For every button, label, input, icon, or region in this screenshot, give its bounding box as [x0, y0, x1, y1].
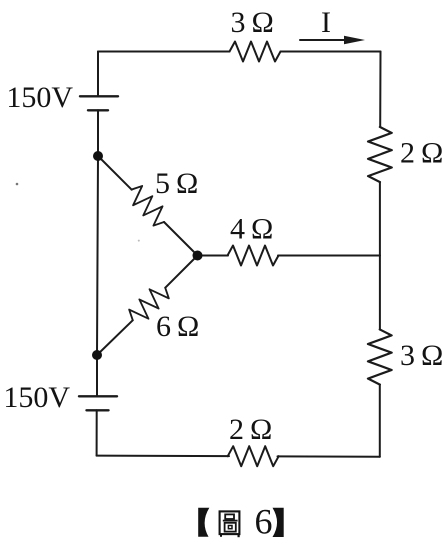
wire right vertical lower	[379, 385, 381, 457]
svg-text:I: I	[321, 6, 331, 39]
wire node N1 to resistor R5	[98, 156, 132, 190]
resistor R6 6ohm diagonal	[126, 281, 173, 328]
svg-text:2 Ω: 2 Ω	[400, 137, 443, 170]
svg-text:2 Ω: 2 Ω	[229, 413, 272, 446]
wire battery B1 to top-left corner	[97, 52, 99, 97]
wire middle horizontal right	[278, 255, 380, 257]
wire resistor R6 to node N2	[97, 320, 133, 355]
svg-text:3 Ω: 3 Ω	[231, 6, 274, 39]
stray speck 1	[16, 183, 19, 186]
battery B1 150V long plate	[80, 95, 118, 97]
wire node N3 to resistor R7	[198, 255, 229, 257]
wire battery B2 to node N2	[96, 355, 98, 396]
wire right vertical upper	[379, 52, 381, 128]
resistor R1 3ohm top	[230, 42, 281, 62]
wire bottom-right horizontal	[278, 455, 380, 457]
wire node N1 to battery B1	[97, 110, 99, 156]
resistor R5 5ohm diagonal	[125, 183, 172, 230]
resistor R2 2ohm right-top	[368, 127, 392, 182]
resistor R4 2ohm bottom	[228, 446, 279, 466]
svg-text:150V: 150V	[6, 81, 73, 114]
svg-text:3 Ω: 3 Ω	[400, 339, 443, 372]
battery B2 150V short plate	[87, 409, 109, 411]
wire resistor R5 to node N3	[164, 222, 198, 256]
svg-text:150V: 150V	[3, 381, 70, 414]
caption right bracket	[273, 508, 284, 537]
battery B2 150V long plate	[79, 395, 117, 397]
node N3 junction dot	[193, 251, 203, 261]
wire left vertical below battery B2	[96, 410, 98, 455]
svg-text:6: 6	[255, 502, 273, 542]
caption left bracket	[198, 508, 209, 537]
current arrow shaft	[300, 39, 346, 41]
battery B1 150V short plate	[88, 109, 108, 111]
wire right vertical mid-lower	[379, 256, 381, 330]
stray speck 2	[138, 240, 140, 242]
svg-text:5 Ω: 5 Ω	[155, 167, 198, 200]
wire node N3 to resistor R6	[165, 256, 197, 288]
node N1 junction dot	[93, 151, 103, 161]
wire top-left horizontal	[98, 51, 230, 53]
resistor R7 4ohm middle	[228, 246, 279, 266]
resistor R3 3ohm right-bottom	[368, 329, 392, 384]
svg-text:6 Ω: 6 Ω	[156, 310, 199, 343]
wire left vertical node N2 to node N1	[97, 156, 98, 355]
wire right vertical mid-upper	[379, 182, 381, 256]
svg-text:4 Ω: 4 Ω	[230, 213, 273, 246]
node N2 junction dot	[92, 350, 102, 360]
wire top-right horizontal	[281, 51, 381, 53]
wire bottom-left horizontal	[97, 455, 229, 458]
caption character tu (figure)	[220, 511, 240, 537]
current arrow head	[344, 36, 365, 45]
